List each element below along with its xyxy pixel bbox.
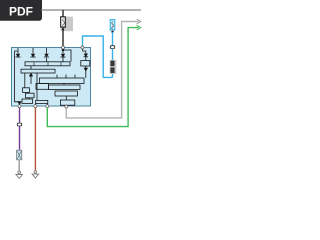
inner box bottom-right — [60, 100, 74, 105]
fuse F2 (cyan) — [110, 20, 115, 31]
bus bar C — [40, 78, 85, 84]
node: ECU bottom pin connectors — [18, 105, 68, 108]
driver box bottom-left — [22, 99, 33, 104]
wire: purple ground lead — [19, 106, 21, 150]
bus bar A — [25, 62, 70, 66]
relay box shading on cyan wire — [110, 60, 117, 74]
bus bar D — [36, 84, 49, 90]
pin stub with arrow — [32, 48, 34, 54]
bus bar E — [55, 91, 78, 96]
wire: cyan route to ECU top pin — [83, 36, 113, 77]
wire: green signal routed to next page — [47, 28, 139, 127]
wire: fuse F1 to ECU pin — [62, 29, 64, 47]
pin stub with arrow (battery input) — [62, 49, 64, 54]
junction block shading (fuse F1 holder) — [61, 17, 74, 32]
driver box bottom-mid — [36, 100, 48, 103]
pin stub with arrow — [17, 48, 19, 54]
routing from IG pin — [83, 49, 86, 53]
node: connector dot below fuse F2 — [111, 31, 113, 33]
ground G1 — [16, 171, 23, 178]
PDF badge — [0, 0, 42, 21]
regulator box — [81, 61, 90, 66]
wire: red ground lead — [34, 106, 36, 170]
bus bar B — [21, 69, 55, 73]
output arrow to ground pin — [18, 102, 21, 105]
node: connector dot below fuse F1 — [62, 28, 64, 30]
fuse F1 — [61, 17, 66, 27]
off-page arrow (green wire) — [137, 25, 141, 30]
node: inline connector on purple wire — [17, 123, 22, 127]
svg-text:PDF: PDF — [9, 5, 33, 19]
node: ECU top pin connectors — [62, 46, 85, 49]
wire: gray lead to ground — [18, 160, 20, 172]
component: noise filter capacitor — [17, 150, 22, 160]
wire: from top bus down to fuse F1 — [62, 10, 64, 17]
wire: top bus line — [41, 9, 141, 11]
wire: cyan IG feed from fuse F2 down — [112, 32, 114, 78]
ground G2 — [32, 171, 39, 178]
off-page arrow (gray wire) — [137, 19, 141, 24]
coil boxes — [23, 88, 30, 93]
pin stub with arrow — [46, 48, 48, 54]
wire: gray signal routed to next page — [66, 22, 139, 118]
node: inline connector on cyan wire — [110, 45, 115, 49]
ECU internal circuitry — [15, 48, 90, 105]
component: noise filter on cyan wire — [111, 61, 114, 73]
ECU block — [12, 48, 91, 107]
left rail — [15, 51, 20, 102]
